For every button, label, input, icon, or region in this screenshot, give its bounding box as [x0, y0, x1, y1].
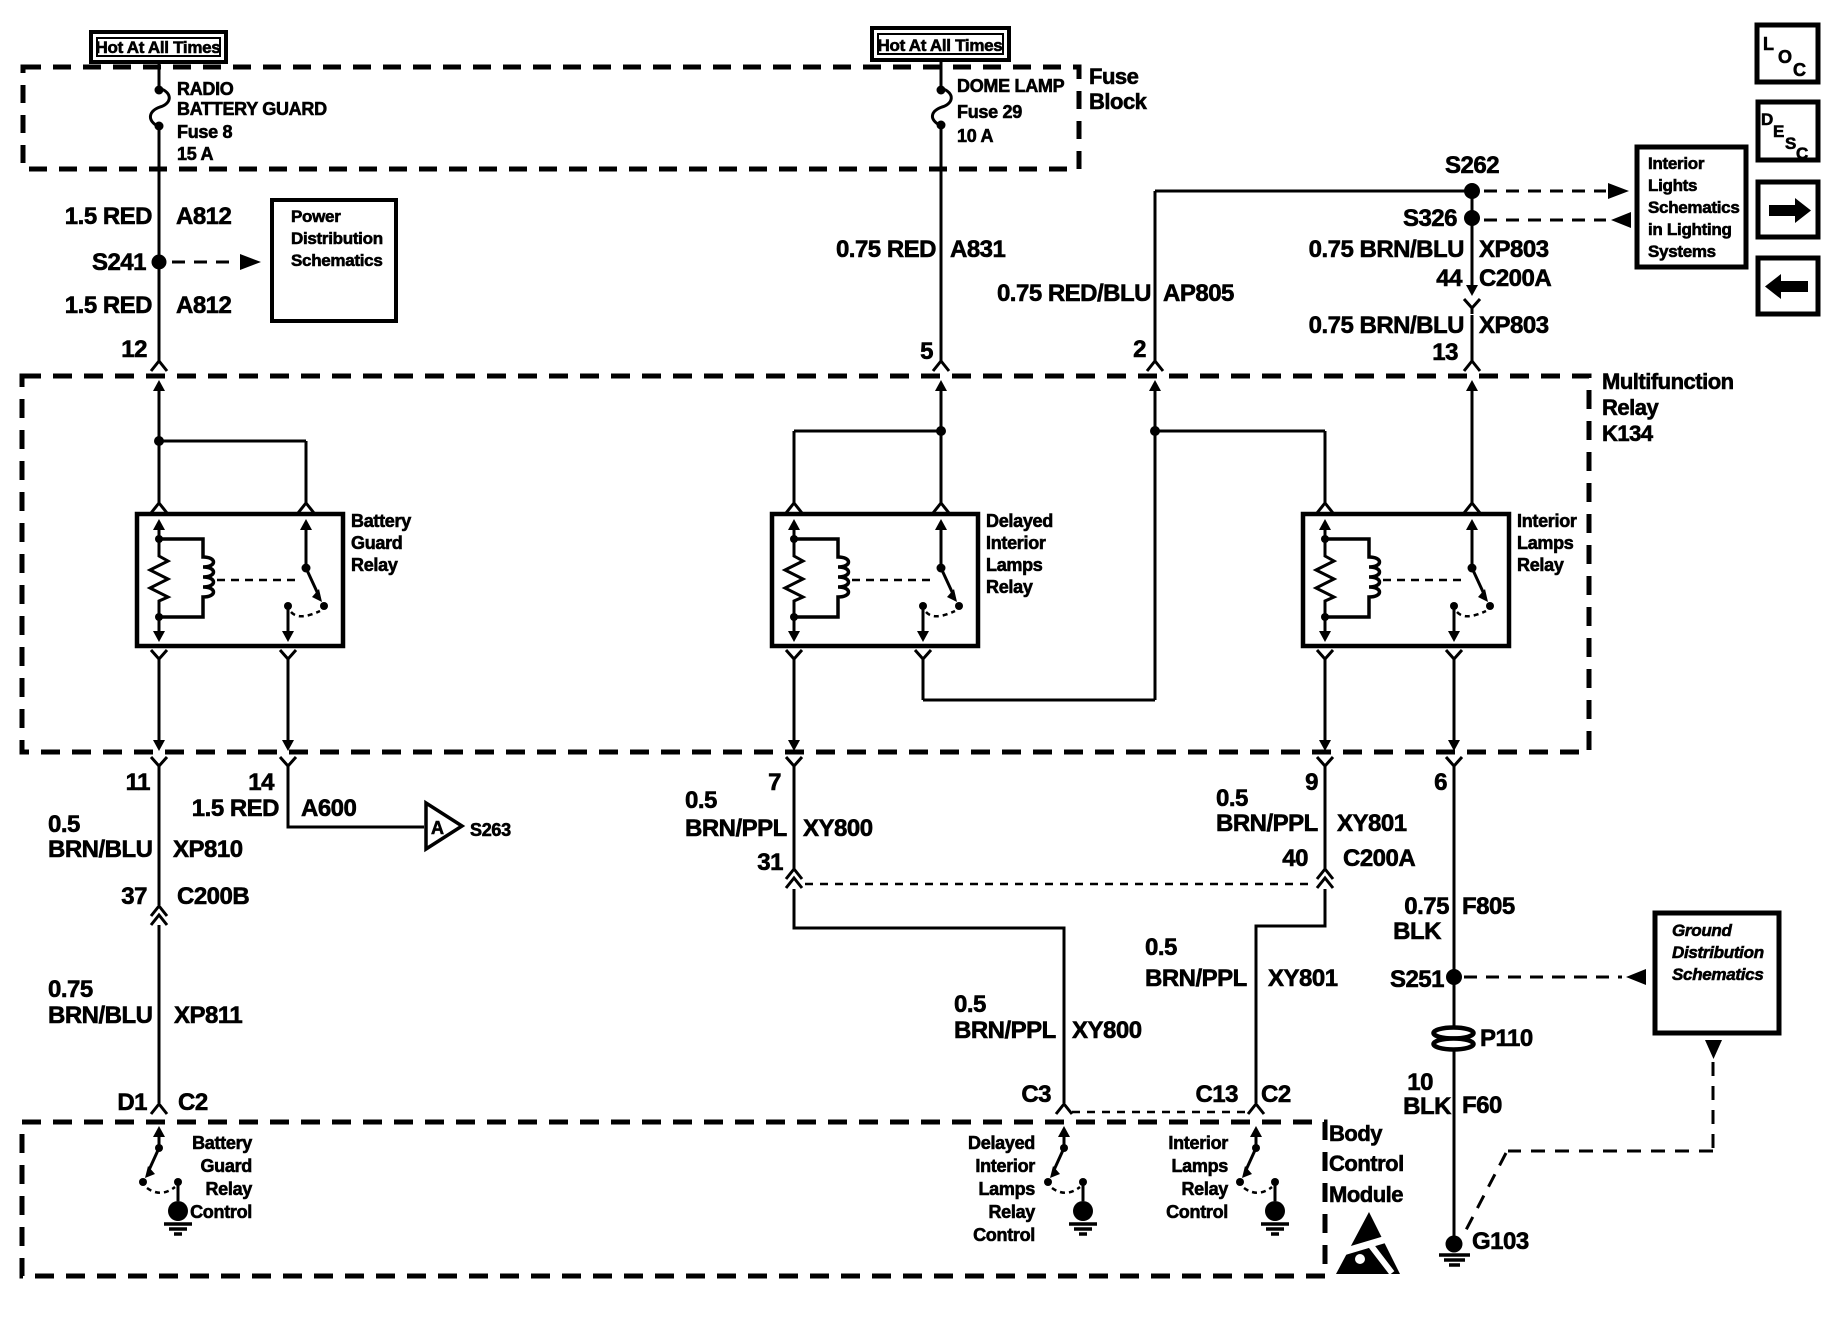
- dashed reference arrow S262 to Interior Lights Schematics: [1484, 183, 1629, 199]
- connector chevron at K134 pin 5: [933, 361, 949, 371]
- delayed interior lamps relay switch blade contact: [955, 602, 963, 610]
- wire label 0.75 RED/BLU AP805: [997, 280, 1234, 307]
- battery guard relay switch output contact: [284, 602, 292, 610]
- svg-text:K134: K134: [1602, 421, 1654, 446]
- pin 14 label: [248, 769, 275, 796]
- connector arrow at K134 pin 5: [935, 380, 947, 404]
- svg-text:P110: P110: [1480, 1025, 1533, 1052]
- dashed reference arrow S241 to Power Distribution: [172, 254, 261, 270]
- delayed interior lamps relay coil output chevron: [786, 650, 802, 665]
- wire label 10 BLK F60: [1403, 1069, 1502, 1120]
- interior lamps relay resistor: [1316, 539, 1334, 617]
- connector C200A label (pin 44): [1479, 265, 1551, 292]
- battery guard relay name label: [351, 511, 411, 575]
- in-line connector C200A chevron at pin 44: [1464, 299, 1480, 314]
- svg-text:Interior: Interior: [1168, 1133, 1228, 1153]
- delayed relay switch-output chevron below box: [0, 0, 1, 1]
- fuse F8 value label: [177, 79, 327, 164]
- connector arrow at K134 pin 9: [1319, 740, 1331, 751]
- interior lamps relay control ground post: [1274, 1182, 1277, 1201]
- interior lamps relay control driver pivot: [1252, 1144, 1260, 1152]
- interior lamps relay control internal ground: [1261, 1201, 1289, 1234]
- svg-text:C13: C13: [1195, 1081, 1238, 1108]
- svg-text:Lights: Lights: [1648, 176, 1697, 195]
- connector chevron at K134 pin 12: [151, 361, 167, 371]
- svg-text:C200A: C200A: [1343, 845, 1415, 872]
- connector arrow at K134 pin 13: [1466, 380, 1478, 404]
- svg-text:Schematics: Schematics: [1648, 198, 1740, 217]
- svg-text:BRN/BLU: BRN/BLU: [48, 836, 153, 863]
- delayed interior lamps relay switch output chevron: [915, 650, 931, 665]
- splice S326: [1464, 210, 1480, 226]
- svg-text:A831: A831: [950, 236, 1006, 263]
- in-line connector C200B double chevron: [151, 906, 167, 925]
- dashed reference arrow Interior Lights Schematics to S326: [1484, 212, 1631, 228]
- wire label 0.5 BRN/PPL XY800 (lower): [954, 991, 1142, 1044]
- wire F805 from pin 6 to splice S251: [1453, 772, 1456, 977]
- svg-text:Module: Module: [1329, 1182, 1403, 1207]
- svg-text:G103: G103: [1472, 1228, 1529, 1255]
- wire delayed relay switch output to node: [922, 665, 925, 700]
- svg-text:0.75 RED/BLU: 0.75 RED/BLU: [997, 280, 1151, 307]
- wire XP803 from C200A to K134 pin 13: [1471, 315, 1474, 361]
- in-line connector C200A double chevron at pin 40: [1317, 869, 1333, 888]
- pin 5 label: [920, 338, 933, 365]
- interior lamps relay coil-pin arrow: [1319, 519, 1331, 539]
- svg-text:5: 5: [920, 338, 933, 365]
- battery guard relay control ground post: [177, 1182, 180, 1201]
- interior lamps relay coil winding: [1325, 539, 1380, 617]
- wire from pin 12 junction to battery guard relay switch: [159, 441, 306, 503]
- fuse F29 value label: [957, 76, 1065, 146]
- svg-text:BRN/BLU: BRN/BLU: [48, 1002, 153, 1029]
- body control module dashed boundary box: [22, 1122, 1325, 1276]
- delayed interior lamps relay switch contact dashed arc: [926, 611, 955, 616]
- svg-text:C: C: [1796, 144, 1808, 163]
- svg-text:Battery: Battery: [192, 1133, 252, 1153]
- svg-text:11: 11: [126, 769, 151, 796]
- svg-text:Interior: Interior: [1517, 511, 1577, 531]
- svg-text:XP803: XP803: [1479, 312, 1549, 339]
- battery guard relay switch output arrow: [282, 606, 294, 642]
- svg-text:Control: Control: [1329, 1151, 1404, 1176]
- connector C200A label (pin 40): [1343, 845, 1415, 872]
- connector arrow at K134 pin 11: [153, 740, 165, 751]
- svg-text:XY801: XY801: [1337, 810, 1407, 837]
- battery guard relay coil output chevron: [151, 650, 167, 665]
- svg-text:Relay: Relay: [1602, 395, 1659, 420]
- wire node junction on pin 12 feed: [154, 436, 164, 446]
- svg-text:0.5: 0.5: [954, 991, 986, 1018]
- svg-text:6: 6: [1434, 769, 1447, 796]
- interior lamps relay control pin arrow: [1250, 1126, 1262, 1148]
- interior lamps relay coil top node: [1321, 535, 1329, 543]
- svg-text:C2: C2: [1261, 1081, 1291, 1108]
- wire from pin 2 junction down to delayed relay switch output: [923, 431, 1155, 700]
- reference box Ground Distribution Schematics: [1655, 913, 1779, 1033]
- battery guard relay control driver pivot: [155, 1144, 163, 1152]
- svg-text:Control: Control: [973, 1225, 1035, 1245]
- in-line connector C200A dashed connector line: [805, 883, 1315, 886]
- wire from pin 2 junction to interior lamps relay coil: [1155, 404, 1325, 503]
- pin C13 label: [1195, 1081, 1238, 1108]
- interior lamps relay control driver blade: [1242, 1148, 1256, 1178]
- svg-text:C200B: C200B: [177, 883, 249, 910]
- delayed interior lamps relay coil top node: [790, 535, 798, 543]
- svg-text:S241: S241: [92, 249, 146, 276]
- pin 44 label: [1436, 265, 1463, 292]
- pin 11 label: [126, 769, 151, 796]
- delayed interior lamps relay control driver pivot: [1060, 1144, 1068, 1152]
- wire interior relay coil output to K134 bottom: [1324, 665, 1327, 740]
- connector chevron at BCM pin D1: [151, 1104, 167, 1114]
- battery guard relay coil output arrow: [153, 617, 165, 642]
- svg-text:Schematics: Schematics: [1672, 965, 1764, 984]
- interior lamps relay control ground post contact: [1271, 1178, 1279, 1186]
- svg-text:Interior: Interior: [1648, 154, 1705, 173]
- battery guard relay control internal ground: [164, 1201, 192, 1234]
- svg-text:Relay: Relay: [1517, 555, 1564, 575]
- svg-text:A812: A812: [176, 292, 232, 319]
- svg-text:13: 13: [1432, 339, 1458, 366]
- svg-text:D: D: [1761, 110, 1773, 129]
- svg-text:12: 12: [121, 336, 147, 363]
- dashed reference arrow from Ground Distribution box down: [1466, 1040, 1722, 1230]
- battery guard relay coil bottom node: [155, 613, 163, 621]
- wire from pin 5 junction to delayed relay switch: [940, 404, 943, 503]
- wire AP805 vertical to K134 pin 2: [1154, 191, 1157, 361]
- svg-text:L: L: [1763, 34, 1774, 54]
- svg-text:C200A: C200A: [1479, 265, 1551, 292]
- body control module name label: [1329, 1121, 1404, 1207]
- wire label 0.5 BRN/PPL XY801 (lower): [1145, 934, 1338, 992]
- svg-text:A600: A600: [301, 795, 357, 822]
- interior lamps relay switch output arrow: [1448, 606, 1460, 642]
- wire label 0.5 BRN/PPL XY801 (upper): [1216, 785, 1407, 837]
- delayed interior lamps relay coil-to-switch dashed link: [852, 579, 933, 582]
- fuse block dashed boundary box: [23, 67, 1079, 169]
- svg-text:S: S: [1785, 134, 1796, 153]
- svg-text:Lamps: Lamps: [1517, 533, 1574, 553]
- svg-text:Relay: Relay: [988, 1202, 1035, 1222]
- interior lamps relay coil bottom node: [1321, 613, 1329, 621]
- connector C2 label at pin C13: [1261, 1081, 1291, 1108]
- wire from Hot At All Times to fuse F29: [940, 60, 943, 88]
- delayed interior lamps relay control ground post contact: [1079, 1178, 1087, 1186]
- wire label 0.75 RED A831: [836, 236, 1006, 263]
- battery guard relay coil-pin chevron: [151, 503, 167, 513]
- wire interior relay switch output to K134 bottom: [1453, 665, 1456, 740]
- svg-text:F60: F60: [1462, 1092, 1502, 1119]
- svg-text:Hot At All Times: Hot At All Times: [96, 38, 221, 57]
- svg-text:XY801: XY801: [1268, 965, 1338, 992]
- interior lamps relay coil output arrow: [1319, 617, 1331, 642]
- next-page arrow box: [1758, 182, 1818, 237]
- connector chevron at K134 pin 9: [1317, 757, 1333, 772]
- battery guard relay switch output chevron: [280, 650, 296, 665]
- svg-text:F805: F805: [1462, 893, 1515, 920]
- svg-text:31: 31: [757, 849, 783, 876]
- delayed interior lamps relay name label: [986, 511, 1053, 597]
- svg-text:E: E: [1773, 122, 1784, 141]
- svg-text:0.5: 0.5: [1145, 934, 1177, 961]
- wire node junction on pin 5 feed: [936, 426, 946, 436]
- in-line connector C200A double chevron at pin 31: [786, 869, 802, 888]
- battery guard relay switch blade: [306, 568, 322, 602]
- fuse F8 RADIO BATTERY GUARD 15A: [150, 86, 169, 131]
- svg-text:0.75 BRN/BLU: 0.75 BRN/BLU: [1309, 236, 1464, 263]
- delayed interior lamps relay relay box: [772, 514, 978, 646]
- multifunction relay K134 name label: [1602, 369, 1734, 446]
- splice S251: [1446, 969, 1462, 985]
- connector arrow at K134 pin 2: [1149, 380, 1161, 404]
- interior lamps relay coil-to-switch dashed link: [1383, 579, 1464, 582]
- wire label 0.5 BRN/BLU XP810: [48, 811, 243, 863]
- pin 6 label: [1434, 769, 1447, 796]
- svg-text:Multifunction: Multifunction: [1602, 369, 1734, 394]
- interior lamps relay switch contact dashed arc: [1457, 611, 1486, 616]
- battery guard relay resistor: [150, 539, 168, 617]
- splice S241: [152, 255, 167, 270]
- pin 40 label: [1282, 845, 1308, 872]
- wire node junction on pin 2 feed: [1150, 426, 1160, 436]
- svg-text:BRN/PPL: BRN/PPL: [1145, 965, 1247, 992]
- svg-text:XP810: XP810: [173, 836, 243, 863]
- power source label box 'Hot At All Times' (fuse 8): [91, 32, 226, 62]
- delayed interior lamps relay control label: [968, 1133, 1035, 1245]
- ESD static sensitive symbol: [1336, 1212, 1400, 1274]
- interior lamps relay switch blade: [1472, 568, 1488, 602]
- svg-text:Guard: Guard: [351, 533, 403, 553]
- wire battery guard relay switch output to K134 bottom: [287, 665, 290, 740]
- wire XP811 from C200B to BCM pin D1: [158, 925, 161, 1103]
- battery guard relay coil winding: [159, 539, 214, 617]
- delayed interior lamps relay control driver contact: [1044, 1178, 1052, 1186]
- svg-text:Lamps: Lamps: [1171, 1156, 1228, 1176]
- battery guard relay switch contact dashed arc: [291, 611, 320, 616]
- wire battery guard relay coil output to K134 bottom: [158, 665, 161, 740]
- svg-text:S263: S263: [470, 820, 511, 840]
- svg-text:Lamps: Lamps: [986, 555, 1043, 575]
- delayed interior lamps relay switch output arrow: [917, 606, 929, 642]
- dashed connector line between BCM pins C3 and C13: [1072, 1111, 1248, 1114]
- svg-text:in Lighting: in Lighting: [1648, 220, 1732, 239]
- splice S262 label: [1445, 152, 1499, 179]
- battery guard relay control pin arrow: [153, 1126, 165, 1148]
- interior lamps relay coil output chevron: [1317, 650, 1333, 665]
- interior lamps relay switch blade contact: [1486, 602, 1494, 610]
- wire between S262 and S326: [1471, 191, 1474, 218]
- interior lamps relay switch-pin arrow: [1466, 519, 1478, 568]
- svg-text:0.75 RED: 0.75 RED: [836, 236, 936, 263]
- svg-text:44: 44: [1436, 265, 1463, 292]
- delayed interior lamps relay coil-pin arrow: [788, 519, 800, 539]
- interior lamps relay relay box: [1303, 514, 1509, 646]
- reference box Power Distribution Schematics: [272, 200, 396, 321]
- svg-text:Block: Block: [1089, 89, 1148, 114]
- svg-text:0.75: 0.75: [1404, 893, 1449, 920]
- delayed interior lamps relay control internal ground: [1069, 1201, 1097, 1234]
- pin C3 label: [1021, 1081, 1051, 1108]
- battery guard relay coil top node: [155, 535, 163, 543]
- battery guard relay switch blade contact: [320, 602, 328, 610]
- splice S326 label: [1403, 205, 1457, 232]
- svg-text:BRN/PPL: BRN/PPL: [1216, 810, 1318, 837]
- svg-text:A: A: [431, 818, 444, 838]
- svg-text:10 A: 10 A: [957, 126, 993, 146]
- svg-text:C2: C2: [178, 1089, 208, 1116]
- connector chevron at K134 pin 6: [1446, 757, 1462, 772]
- svg-text:C: C: [1793, 60, 1806, 80]
- svg-text:14: 14: [248, 769, 275, 796]
- svg-text:Hot At All Times: Hot At All Times: [878, 36, 1003, 55]
- svg-text:Fuse 29: Fuse 29: [957, 102, 1022, 122]
- svg-text:S251: S251: [1390, 966, 1444, 993]
- wire delayed relay coil output to K134 bottom: [793, 665, 796, 740]
- battery guard relay switch-pin chevron: [298, 503, 314, 513]
- battery guard relay control ground post contact: [174, 1178, 182, 1186]
- battery guard relay switch-pin arrow: [300, 519, 312, 568]
- svg-text:Power: Power: [291, 207, 341, 226]
- splice symbol S263 triangle: [426, 803, 462, 849]
- svg-text:Lamps: Lamps: [978, 1179, 1035, 1199]
- battery guard relay coil-pin arrow: [153, 519, 165, 539]
- connector chevron at K134 pin 13: [1464, 361, 1480, 371]
- wire A831 from fuse 29 down to K134 pin 5: [940, 126, 943, 361]
- battery guard relay relay box: [137, 514, 343, 646]
- svg-text:7: 7: [768, 769, 781, 796]
- svg-text:1.5 RED: 1.5 RED: [192, 795, 279, 822]
- connector arrow at K134 pin 12: [153, 380, 165, 404]
- battery guard relay control label: [190, 1133, 252, 1222]
- svg-text:1.5 RED: 1.5 RED: [65, 292, 152, 319]
- wire label 0.75 BRN/BLU XP803 (lower): [1309, 312, 1549, 339]
- svg-text:XP803: XP803: [1479, 236, 1549, 263]
- svg-text:Distribution: Distribution: [291, 229, 383, 248]
- multifunction relay K134 dashed boundary box: [22, 376, 1589, 752]
- svg-text:0.75: 0.75: [48, 976, 93, 1003]
- wire A812 from fuse 8 down to K134 pin 12: [158, 127, 161, 361]
- connector chevron at BCM pin C3: [1056, 1104, 1072, 1114]
- svg-text:AP805: AP805: [1163, 280, 1234, 307]
- pin D1 label: [117, 1089, 147, 1116]
- connector C200B label: [177, 883, 249, 910]
- wire XY801 from C200A down to BCM pin C2: [1256, 889, 1325, 1103]
- svg-text:BATTERY GUARD: BATTERY GUARD: [177, 99, 327, 119]
- battery guard relay control dashed contact arc: [147, 1187, 175, 1193]
- fuse block name label: [1089, 64, 1148, 114]
- pin 2 label: [1133, 336, 1146, 363]
- svg-text:Fuse 8: Fuse 8: [177, 122, 233, 142]
- svg-text:2: 2: [1133, 336, 1146, 363]
- pin 12 label: [121, 336, 147, 363]
- connector C2 label at pin D1: [178, 1089, 208, 1116]
- pin 7 label: [768, 769, 781, 796]
- interior lamps relay switch output chevron: [1446, 650, 1462, 665]
- connector chevron at K134 pin 11: [151, 757, 167, 772]
- delayed interior lamps relay control driver blade: [1050, 1148, 1064, 1178]
- svg-text:Battery: Battery: [351, 511, 411, 531]
- connector arrow at K134 pin 14: [282, 740, 294, 751]
- svg-text:XY800: XY800: [803, 815, 873, 842]
- wire label 1.5 RED A812 (lower): [65, 292, 232, 319]
- wire XY800 from C200A down to BCM pin C3: [794, 889, 1064, 1103]
- svg-text:0.5: 0.5: [1216, 785, 1248, 812]
- dashed reference arrow Ground Distribution to S251: [1464, 969, 1646, 985]
- ground G103 label: [1472, 1228, 1529, 1255]
- delayed interior lamps relay coil output arrow: [788, 617, 800, 642]
- pin 9 label: [1305, 769, 1318, 796]
- delayed interior lamps relay switch-pin chevron: [933, 503, 949, 513]
- svg-text:Control: Control: [190, 1202, 252, 1222]
- interior lamps relay control label: [1166, 1133, 1228, 1222]
- connector chevron at K134 pin 2: [1147, 361, 1163, 371]
- svg-text:S326: S326: [1403, 205, 1457, 232]
- svg-text:Control: Control: [1166, 1202, 1228, 1222]
- wire label 0.5 BRN/PPL XY800 (upper): [685, 787, 873, 842]
- delayed interior lamps relay coil winding: [794, 539, 849, 617]
- svg-text:15 A: 15 A: [177, 144, 213, 164]
- interior lamps relay coil-pin chevron: [1317, 503, 1333, 513]
- wire label 0.75 BLK F805: [1393, 893, 1515, 945]
- wire XP810 from pin 11 to connector C200B: [158, 772, 161, 905]
- delayed interior lamps relay resistor: [785, 539, 803, 617]
- svg-text:0.75 BRN/BLU: 0.75 BRN/BLU: [1309, 312, 1464, 339]
- interior lamps relay switch pivot: [1468, 564, 1477, 573]
- interior lamps relay control driver contact: [1236, 1178, 1244, 1186]
- pin 13 label: [1432, 339, 1458, 366]
- delayed interior lamps relay switch output contact: [919, 602, 927, 610]
- svg-text:1.5 RED: 1.5 RED: [65, 203, 152, 230]
- svg-text:Distribution: Distribution: [1672, 943, 1764, 962]
- wire XY801 from pin 9 to connector C200A: [1324, 772, 1327, 869]
- svg-text:RADIO: RADIO: [177, 79, 234, 99]
- connector arrow at K134 pin 7: [788, 740, 800, 751]
- splice S241 label: [92, 249, 146, 276]
- wire label 1.5 RED A812 (upper): [65, 203, 232, 230]
- grommet P110: [1434, 1028, 1474, 1050]
- battery guard relay switch pivot: [302, 564, 311, 573]
- pin 31 label: [757, 849, 783, 876]
- wire from Hot At All Times to fuse F8: [158, 62, 161, 88]
- delayed interior lamps relay control ground post: [1082, 1182, 1085, 1201]
- svg-text:Fuse: Fuse: [1089, 64, 1139, 89]
- wire label 0.75 BRN/BLU XP803 (upper): [1309, 236, 1549, 263]
- delayed interior lamps relay control pin arrow: [1058, 1126, 1070, 1148]
- svg-text:Delayed: Delayed: [968, 1133, 1035, 1153]
- splice S263 label: [470, 820, 511, 840]
- wire F805 from S251 to grommet P110: [1453, 977, 1456, 1028]
- svg-text:Relay: Relay: [986, 577, 1033, 597]
- connector chevron at BCM pin C13: [1248, 1104, 1264, 1114]
- svg-text:BRN/PPL: BRN/PPL: [954, 1017, 1056, 1044]
- wire from pin 5 junction to delayed relay coil: [794, 431, 941, 503]
- pin 37 label: [121, 883, 147, 910]
- svg-text:10: 10: [1407, 1069, 1433, 1096]
- svg-text:XY800: XY800: [1072, 1017, 1142, 1044]
- battery guard relay control driver blade: [145, 1148, 159, 1178]
- splice S262: [1464, 183, 1480, 199]
- interior lamps relay switch-pin chevron: [1464, 503, 1480, 513]
- ground G103: [1439, 1236, 1470, 1266]
- delayed interior lamps relay switch pivot: [937, 564, 946, 573]
- grommet P110 label: [1480, 1025, 1533, 1052]
- in-line connector C200A arrow at pin 44: [1466, 262, 1478, 296]
- interior lamps relay switch output contact: [1450, 602, 1458, 610]
- wire label 1.5 RED A600: [192, 795, 357, 822]
- delayed interior lamps relay control dashed contact arc: [1052, 1187, 1080, 1193]
- power source label box 'Hot At All Times' (fuse 29): [872, 28, 1009, 60]
